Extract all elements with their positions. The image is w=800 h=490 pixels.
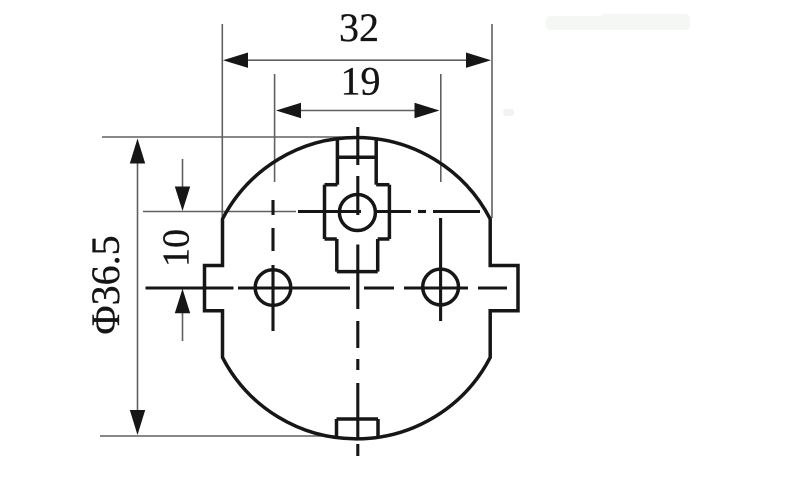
svg-text:Φ36.5: Φ36.5 [83, 235, 128, 334]
svg-text:10: 10 [156, 229, 198, 267]
svg-text:32: 32 [339, 5, 379, 50]
svg-text:19: 19 [341, 59, 381, 104]
